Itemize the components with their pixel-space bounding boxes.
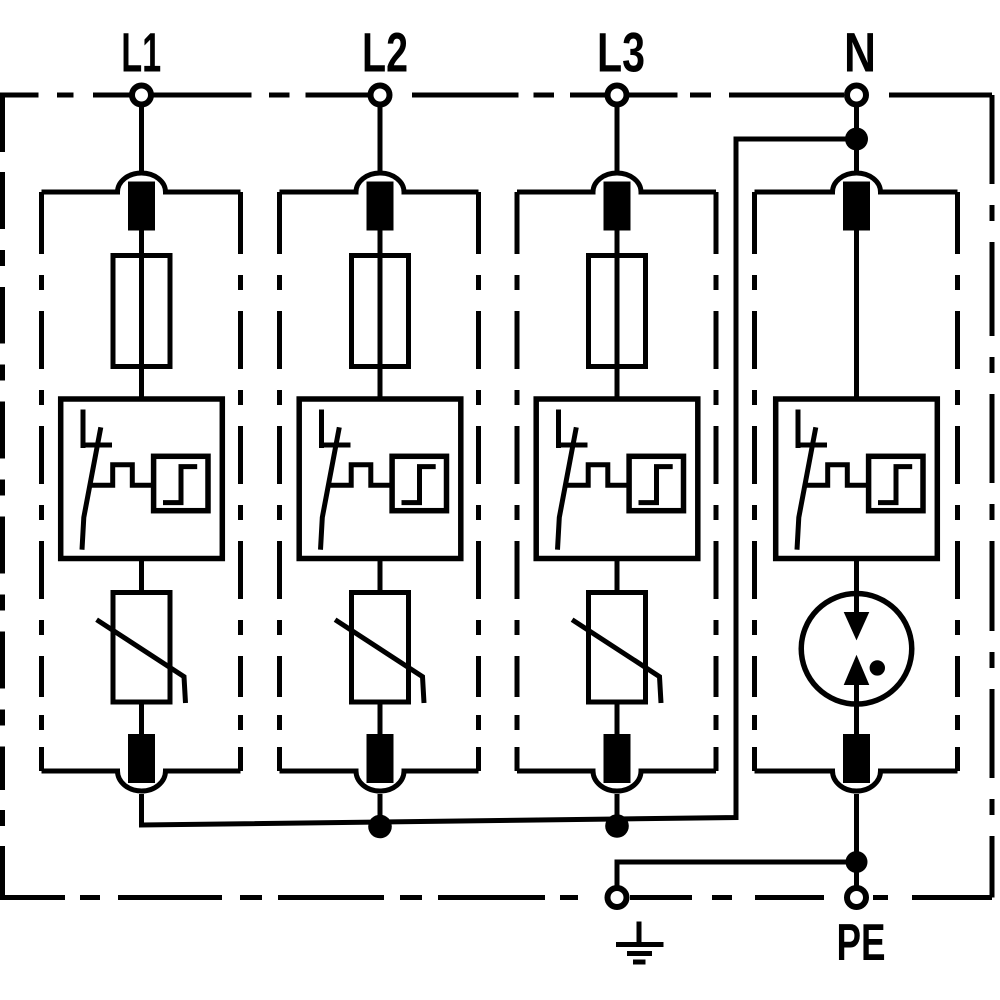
svg-text:L2: L2 — [362, 21, 408, 84]
svg-text:N: N — [844, 21, 876, 84]
svg-text:L3: L3 — [597, 21, 645, 84]
svg-text:PE: PE — [837, 914, 886, 972]
svg-text:L1: L1 — [121, 21, 161, 84]
